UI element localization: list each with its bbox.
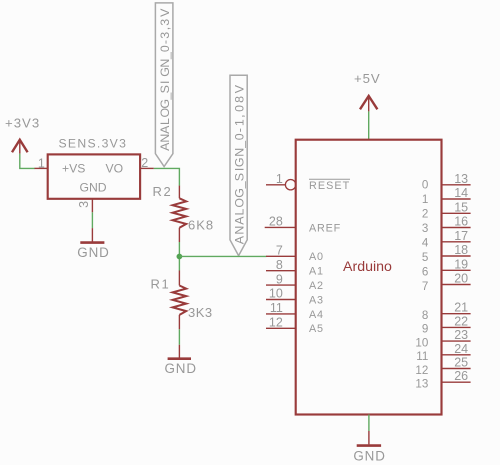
wire +5V to Arduino top — [368, 111, 370, 139]
svg-text:2: 2 — [422, 207, 428, 220]
power symbol +3V3 — [5, 115, 40, 153]
svg-text:10: 10 — [415, 336, 428, 349]
svg-text:11: 11 — [270, 301, 283, 315]
svg-text:4: 4 — [422, 237, 429, 250]
pin 22 — [442, 314, 471, 328]
svg-text:A2: A2 — [309, 280, 324, 292]
svg-text:GND: GND — [164, 361, 196, 376]
pin 8 A1 — [266, 258, 296, 272]
pin 7 A0 — [266, 244, 296, 258]
svg-text:26: 26 — [454, 369, 468, 383]
sensor SENS.3V3 — [48, 137, 140, 199]
wire junction to Arduino A0 — [179, 255, 266, 257]
IC U1 Arduino box — [296, 140, 442, 415]
svg-text:6: 6 — [422, 266, 428, 279]
svg-text:A4: A4 — [309, 309, 324, 321]
svg-text:GND: GND — [353, 448, 385, 463]
svg-text:23: 23 — [454, 328, 468, 342]
svg-text:RESET: RESET — [309, 180, 350, 192]
svg-text:SENS.3V3: SENS.3V3 — [59, 137, 128, 151]
svg-text:1: 1 — [38, 157, 45, 171]
svg-text:20: 20 — [454, 272, 468, 286]
svg-text:GND: GND — [80, 181, 107, 195]
svg-text:7: 7 — [422, 280, 428, 293]
svg-text:9: 9 — [422, 323, 428, 336]
svg-text:GND: GND — [77, 245, 109, 260]
wire R1 to ground — [178, 329, 180, 345]
svg-text:2: 2 — [141, 156, 148, 170]
resistor R2 — [152, 184, 214, 242]
svg-text:18: 18 — [454, 243, 468, 257]
pin RESET label — [309, 179, 350, 192]
ground symbol GND (Arduino) — [353, 431, 385, 463]
svg-text:A0: A0 — [309, 251, 324, 263]
svg-text:21: 21 — [454, 301, 468, 315]
svg-text:0: 0 — [422, 178, 428, 191]
svg-text:11: 11 — [416, 350, 428, 363]
svg-text:AREF: AREF — [309, 222, 341, 234]
svg-text:+VS: +VS — [62, 161, 85, 175]
svg-text:12: 12 — [269, 316, 283, 330]
svg-text:10: 10 — [269, 287, 283, 301]
svg-text:9: 9 — [276, 272, 283, 286]
pin 12 A5 — [266, 316, 296, 330]
pin 17 — [442, 229, 471, 243]
svg-text:3K3: 3K3 — [188, 305, 213, 320]
pin 24 — [442, 342, 471, 356]
svg-text:8: 8 — [276, 258, 283, 272]
svg-text:22: 22 — [454, 314, 468, 328]
svg-text:17: 17 — [454, 229, 468, 243]
wire net from sensor VO to R2 — [154, 168, 180, 185]
pin 14 — [442, 186, 471, 200]
sensor pin 1 (+VS) — [35, 157, 48, 171]
svg-text:12: 12 — [415, 364, 428, 377]
svg-text:Arduino: Arduino — [343, 259, 392, 275]
svg-text:A5: A5 — [309, 323, 324, 335]
svg-text:5: 5 — [422, 251, 428, 264]
net flag ANALOG_SIGN_0-1,08V — [230, 75, 247, 256]
pin 10 A3 — [266, 287, 296, 301]
svg-text:25: 25 — [454, 356, 468, 370]
svg-text:13: 13 — [454, 172, 468, 186]
pin 28 AREF — [265, 215, 296, 229]
net flag ANALOG_SIGN_0-3,3V — [155, 3, 173, 167]
svg-text:13: 13 — [415, 378, 428, 391]
svg-text:3: 3 — [77, 201, 91, 208]
wire R2 to junction to R1 — [178, 242, 180, 271]
sensor pin 3 (GND) — [77, 199, 93, 213]
pin 23 — [442, 328, 471, 342]
pin 9 A2 — [266, 272, 296, 286]
ground symbol GND (sensor) — [77, 228, 109, 260]
power symbol +5V — [354, 71, 381, 111]
svg-text:R2: R2 — [152, 184, 172, 199]
pin 1 RESET — [266, 172, 296, 190]
svg-text:A3: A3 — [309, 294, 324, 306]
svg-text:3: 3 — [422, 222, 428, 235]
pin 18 — [442, 243, 471, 257]
svg-text:8: 8 — [422, 309, 428, 322]
svg-text:28: 28 — [269, 215, 283, 229]
svg-text:7: 7 — [276, 244, 283, 258]
svg-text:1: 1 — [422, 193, 428, 206]
wire Arduino GND pin to ground — [368, 415, 370, 432]
wire net +3V3 to sensor pin 1 — [20, 154, 35, 169]
svg-text:6K8: 6K8 — [188, 218, 214, 233]
svg-text:R1: R1 — [150, 277, 170, 292]
ground symbol GND (R1) — [164, 345, 196, 376]
svg-text:+5V: +5V — [354, 71, 381, 86]
pin 11 A4 — [266, 301, 296, 315]
pin 21 — [442, 301, 471, 315]
svg-text:16: 16 — [454, 215, 468, 229]
pin 25 — [442, 356, 471, 370]
svg-text:24: 24 — [454, 342, 468, 356]
pin 15 — [442, 200, 471, 214]
pin 20 — [442, 272, 471, 286]
pin 26 — [442, 369, 471, 383]
pin 13 — [442, 172, 471, 186]
pin 19 — [442, 257, 471, 271]
svg-text:+3V3: +3V3 — [5, 115, 40, 130]
wire sensor pin3 to ground — [91, 212, 93, 228]
pin 16 — [442, 215, 471, 229]
svg-text:14: 14 — [454, 186, 468, 200]
svg-text:19: 19 — [454, 257, 468, 271]
svg-text:15: 15 — [454, 200, 468, 214]
junction node — [177, 254, 183, 260]
svg-text:VO: VO — [106, 161, 124, 175]
sensor pin 2 (VO) — [140, 156, 154, 170]
svg-text:ANALOG_SIGN_0-1,08V: ANALOG_SIGN_0-1,08V — [232, 84, 246, 244]
resistor R1 — [150, 271, 212, 330]
svg-text:A1: A1 — [309, 266, 324, 278]
svg-text:1: 1 — [276, 172, 283, 186]
